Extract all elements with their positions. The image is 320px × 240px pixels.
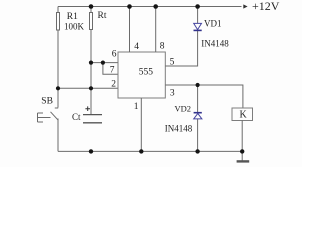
svg-text:6: 6 [112,50,117,60]
svg-text:555: 555 [139,68,154,78]
svg-text:7: 7 [110,66,115,76]
svg-text:Rt: Rt [98,11,107,21]
svg-text:2: 2 [111,80,116,90]
svg-text:SB: SB [41,97,53,107]
svg-text:4: 4 [134,42,139,52]
svg-text:VD1: VD1 [204,19,222,29]
svg-text:IN4148: IN4148 [165,123,193,133]
svg-text:Ct: Ct [72,112,81,122]
svg-text:K: K [240,110,248,121]
svg-text:1: 1 [134,102,139,112]
svg-text:+12V: +12V [252,0,280,13]
svg-text:IN4148: IN4148 [201,39,229,49]
svg-text:8: 8 [160,42,165,52]
svg-text:R1: R1 [67,12,78,22]
svg-text:100K: 100K [64,22,85,32]
svg-text:5: 5 [170,58,175,68]
svg-text:VD2: VD2 [175,104,192,114]
svg-text:3: 3 [170,89,175,99]
